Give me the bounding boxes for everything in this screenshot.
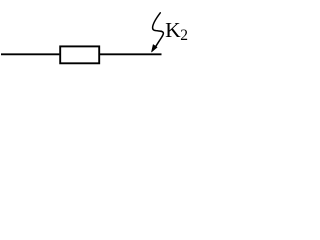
svg-text:K: K [165,18,181,42]
breakdown arrow (lightning squiggle) at node K2 [153,13,164,46]
wire left segment [1,53,59,55]
resistor R1 [60,46,99,63]
arrowhead of breakdown arrow [152,45,158,52]
svg-text:2: 2 [180,27,188,44]
wire right segment [100,53,162,55]
